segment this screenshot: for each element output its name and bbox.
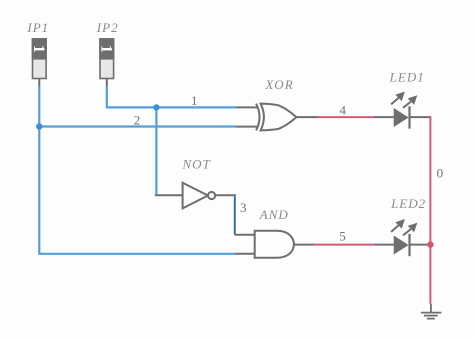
junction node at net0: [427, 241, 433, 247]
svg-text:LED2: LED2: [390, 196, 426, 211]
svg-text:4: 4: [340, 102, 347, 117]
XOR gate U1: [237, 104, 297, 131]
junction node at wire1: [153, 104, 159, 110]
svg-text:LED1: LED1: [389, 69, 425, 84]
ground: [421, 304, 442, 319]
wire net4 XOR out to LED1: [296, 116, 430, 118]
AND gate U3: [255, 231, 294, 258]
svg-text:1: 1: [97, 45, 116, 53]
svg-text:XOR: XOR: [264, 77, 293, 92]
svg-text:5: 5: [339, 228, 346, 243]
wire net2 IP1 to XOR.B and AND.B: [39, 79, 254, 254]
svg-text:1: 1: [191, 93, 198, 108]
wire net0 LEDs to ground: [429, 116, 431, 304]
NOT gate U2: [183, 183, 216, 209]
LED1: [391, 92, 417, 129]
wire net1 IP2 to XOR.A and NOT.A: [107, 79, 237, 195]
input pin IP2: [97, 39, 116, 79]
svg-text:3: 3: [240, 200, 247, 215]
svg-text:IP2: IP2: [96, 20, 119, 35]
svg-text:NOT: NOT: [181, 157, 210, 172]
svg-text:IP1: IP1: [26, 20, 49, 35]
LED2: [391, 219, 417, 256]
svg-text:AND: AND: [259, 207, 289, 222]
input pin IP1: [30, 39, 49, 79]
wire net3 NOT out to AND.A: [215, 194, 255, 235]
svg-text:0: 0: [437, 166, 444, 181]
junction node at wire2: [36, 123, 42, 129]
svg-text:1: 1: [30, 45, 49, 53]
wire net5 AND out to LED2: [294, 244, 431, 246]
svg-text:2: 2: [134, 112, 141, 127]
